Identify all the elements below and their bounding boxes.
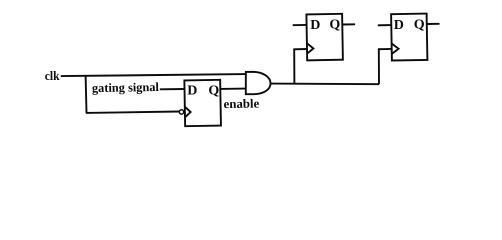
- wire U1 Q output (enable) to AND gate bottom input: [220, 88, 245, 90]
- wire riser to FF2 clock: [294, 49, 307, 84]
- flip-flop U1 box (gated): [184, 80, 221, 126]
- wire clk horizontal to AND gate top input: [61, 74, 246, 76]
- svg-text:D: D: [394, 18, 404, 33]
- wire gating signal to FF1 D input: [160, 88, 185, 90]
- svg-text:clk: clk: [45, 69, 60, 83]
- svg-text:D: D: [310, 18, 320, 33]
- flip-flop U2 box: [306, 14, 342, 61]
- wire U2 Q output stub: [343, 23, 355, 25]
- svg-text:Q: Q: [414, 18, 425, 33]
- clock triangle inside U1: [185, 107, 190, 117]
- wire U3 Q output stub: [427, 23, 439, 25]
- wire U3 D input stub: [378, 24, 392, 26]
- inversion bubble on U1 clock: [179, 110, 183, 114]
- wire gated-clock horizontal to FF1 clock bubble: [86, 112, 179, 113]
- clock triangle inside U2: [307, 43, 313, 53]
- wire U2 D input stub: [293, 24, 307, 26]
- svg-text:Q: Q: [208, 83, 219, 98]
- wire clk branch riser down at x~85.5: [85, 75, 88, 113]
- flip-flop U3 box: [391, 14, 427, 61]
- wire AND gate output run: [271, 83, 379, 86]
- wire riser to FF3 clock: [379, 49, 392, 84]
- svg-text:gating signal: gating signal: [92, 80, 160, 95]
- clock triangle inside U3: [392, 44, 399, 54]
- svg-text:enable: enable: [224, 96, 260, 111]
- AND gate G1 body: [246, 72, 271, 94]
- svg-text:D: D: [187, 84, 197, 99]
- svg-text:Q: Q: [329, 18, 340, 33]
